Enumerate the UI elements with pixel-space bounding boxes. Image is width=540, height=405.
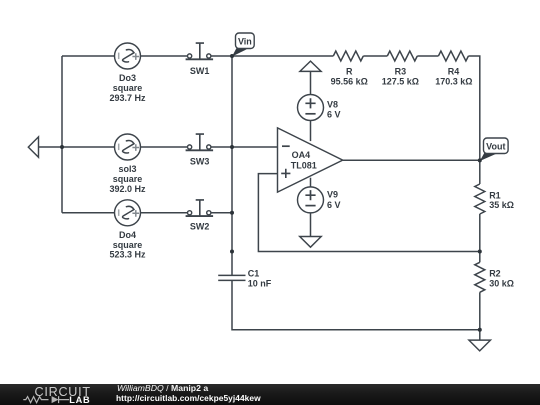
junction row2 bus xyxy=(230,145,234,149)
svg-text:square: square xyxy=(113,83,143,93)
voltage source sol3 square 392.0 Hz xyxy=(109,134,146,194)
junction left bus row2 xyxy=(60,145,64,149)
svg-text:392.0 Hz: 392.0 Hz xyxy=(109,184,146,194)
footer url line xyxy=(116,394,261,404)
voltage source V9 6 V xyxy=(298,187,341,213)
wire row1 left segment xyxy=(62,55,115,57)
wire C1 bottom to bottom rail xyxy=(232,280,480,329)
switch SW3 xyxy=(186,134,214,166)
svg-text:square: square xyxy=(113,240,143,250)
op-amp OA4 TL081 xyxy=(278,128,343,192)
svg-text:LAB: LAB xyxy=(69,395,90,405)
svg-text:Vout: Vout xyxy=(486,141,505,151)
ground top above V8 (rotated 180) xyxy=(300,61,321,71)
svg-text:293.7 Hz: 293.7 Hz xyxy=(109,93,146,103)
svg-text:Do4: Do4 xyxy=(119,230,136,240)
wire row3 left segment xyxy=(62,212,115,214)
svg-text:SW3: SW3 xyxy=(190,156,210,166)
svg-text:95.56 kΩ: 95.56 kΩ xyxy=(331,77,368,87)
svg-text:SW1: SW1 xyxy=(190,66,210,76)
capacitor C1 10 nF xyxy=(218,269,272,289)
node Vout label xyxy=(480,138,508,161)
switch SW2 xyxy=(186,200,214,232)
wire R2 top lead xyxy=(479,252,481,263)
svg-text:6 V: 6 V xyxy=(327,110,341,120)
junction row3 bus xyxy=(230,211,234,215)
wire R4 to right bus xyxy=(468,56,479,160)
svg-text:Do3: Do3 xyxy=(119,73,136,83)
resistor R1 35 kOhm xyxy=(475,184,514,214)
footer credit line xyxy=(117,384,208,394)
svg-text:Vin: Vin xyxy=(238,36,252,46)
svg-text:6 V: 6 V xyxy=(327,200,341,210)
svg-text:SW2: SW2 xyxy=(190,222,210,232)
wire sol3 to SW3 xyxy=(141,146,188,148)
voltage source V8 6 V xyxy=(298,95,341,121)
svg-text:sol3: sol3 xyxy=(118,164,136,174)
voltage source Do4 square 523.3 Hz xyxy=(109,200,146,260)
resistor R 95.56 kOhm xyxy=(331,51,368,87)
wire op-amp output to Vout xyxy=(343,159,480,161)
svg-text:170.3 kΩ: 170.3 kΩ xyxy=(435,77,472,87)
wire left bus vertical xyxy=(61,56,63,213)
wire V8 ground stub xyxy=(310,71,312,94)
wire Do4 to SW2 xyxy=(141,212,188,214)
switch SW1 xyxy=(186,43,214,76)
svg-text:C1: C1 xyxy=(248,269,260,279)
svg-text:10 nF: 10 nF xyxy=(248,279,272,289)
wire R1 top lead xyxy=(479,160,481,184)
svg-text:35 kΩ: 35 kΩ xyxy=(489,200,514,210)
wire bus to op-amp inverting input xyxy=(232,146,278,148)
svg-text:R: R xyxy=(346,66,353,76)
resistor R4 170.3 kOhm xyxy=(435,51,472,87)
svg-text:523.3 Hz: 523.3 Hz xyxy=(109,250,146,260)
ground left (rotated) xyxy=(28,137,38,157)
svg-text:R3: R3 xyxy=(395,66,407,76)
svg-text:V8: V8 xyxy=(327,100,338,110)
wire Do3 to SW1 xyxy=(141,55,188,57)
wire Vin node to resistor chain xyxy=(232,55,333,57)
voltage source Do3 square 293.7 Hz xyxy=(109,43,146,103)
svg-text:R4: R4 xyxy=(448,66,460,76)
svg-text:R2: R2 xyxy=(489,268,501,278)
svg-text:30 kΩ: 30 kΩ xyxy=(489,279,514,289)
ground below V9 xyxy=(300,237,322,248)
wire V8 to op-amp V+ pin xyxy=(310,121,312,142)
junction bus segment joint xyxy=(230,250,234,254)
wire ground stub bottom right xyxy=(479,330,481,340)
wire V9 to ground xyxy=(310,213,312,237)
wire R to R3 xyxy=(363,55,387,57)
junction Vout node xyxy=(478,158,482,162)
CircuitLab logo xyxy=(0,384,110,405)
resistor R2 30 kOhm xyxy=(475,262,514,292)
wire SW3 to bus xyxy=(211,146,232,148)
resistor R3 127.5 kOhm xyxy=(382,51,419,87)
wire R1 bottom lead xyxy=(479,214,481,252)
svg-text:OA4: OA4 xyxy=(292,150,311,160)
ground bottom right xyxy=(469,340,491,351)
svg-text:V9: V9 xyxy=(327,190,338,200)
junction bottom rail ground xyxy=(478,328,482,332)
wire op-amp V- pin to V9 xyxy=(310,178,312,187)
svg-text:127.5 kΩ: 127.5 kΩ xyxy=(382,77,419,87)
svg-text:TL081: TL081 xyxy=(291,161,317,171)
junction Vin node xyxy=(230,54,234,58)
svg-text:square: square xyxy=(113,174,143,184)
footer bar xyxy=(0,384,540,405)
node Vin label xyxy=(232,33,254,57)
wire SW1 to Vin node xyxy=(211,55,232,57)
wire Vin bus vertical xyxy=(231,56,233,275)
wire SW2 to bus xyxy=(211,212,232,214)
wire R2 bottom lead xyxy=(479,292,481,329)
wire op-amp noninverting input loop xyxy=(258,174,479,252)
wire R3 to R4 xyxy=(417,55,438,57)
wire ground stub to left bus row2 xyxy=(39,146,115,148)
junction R1 R2 feedback xyxy=(478,250,482,254)
